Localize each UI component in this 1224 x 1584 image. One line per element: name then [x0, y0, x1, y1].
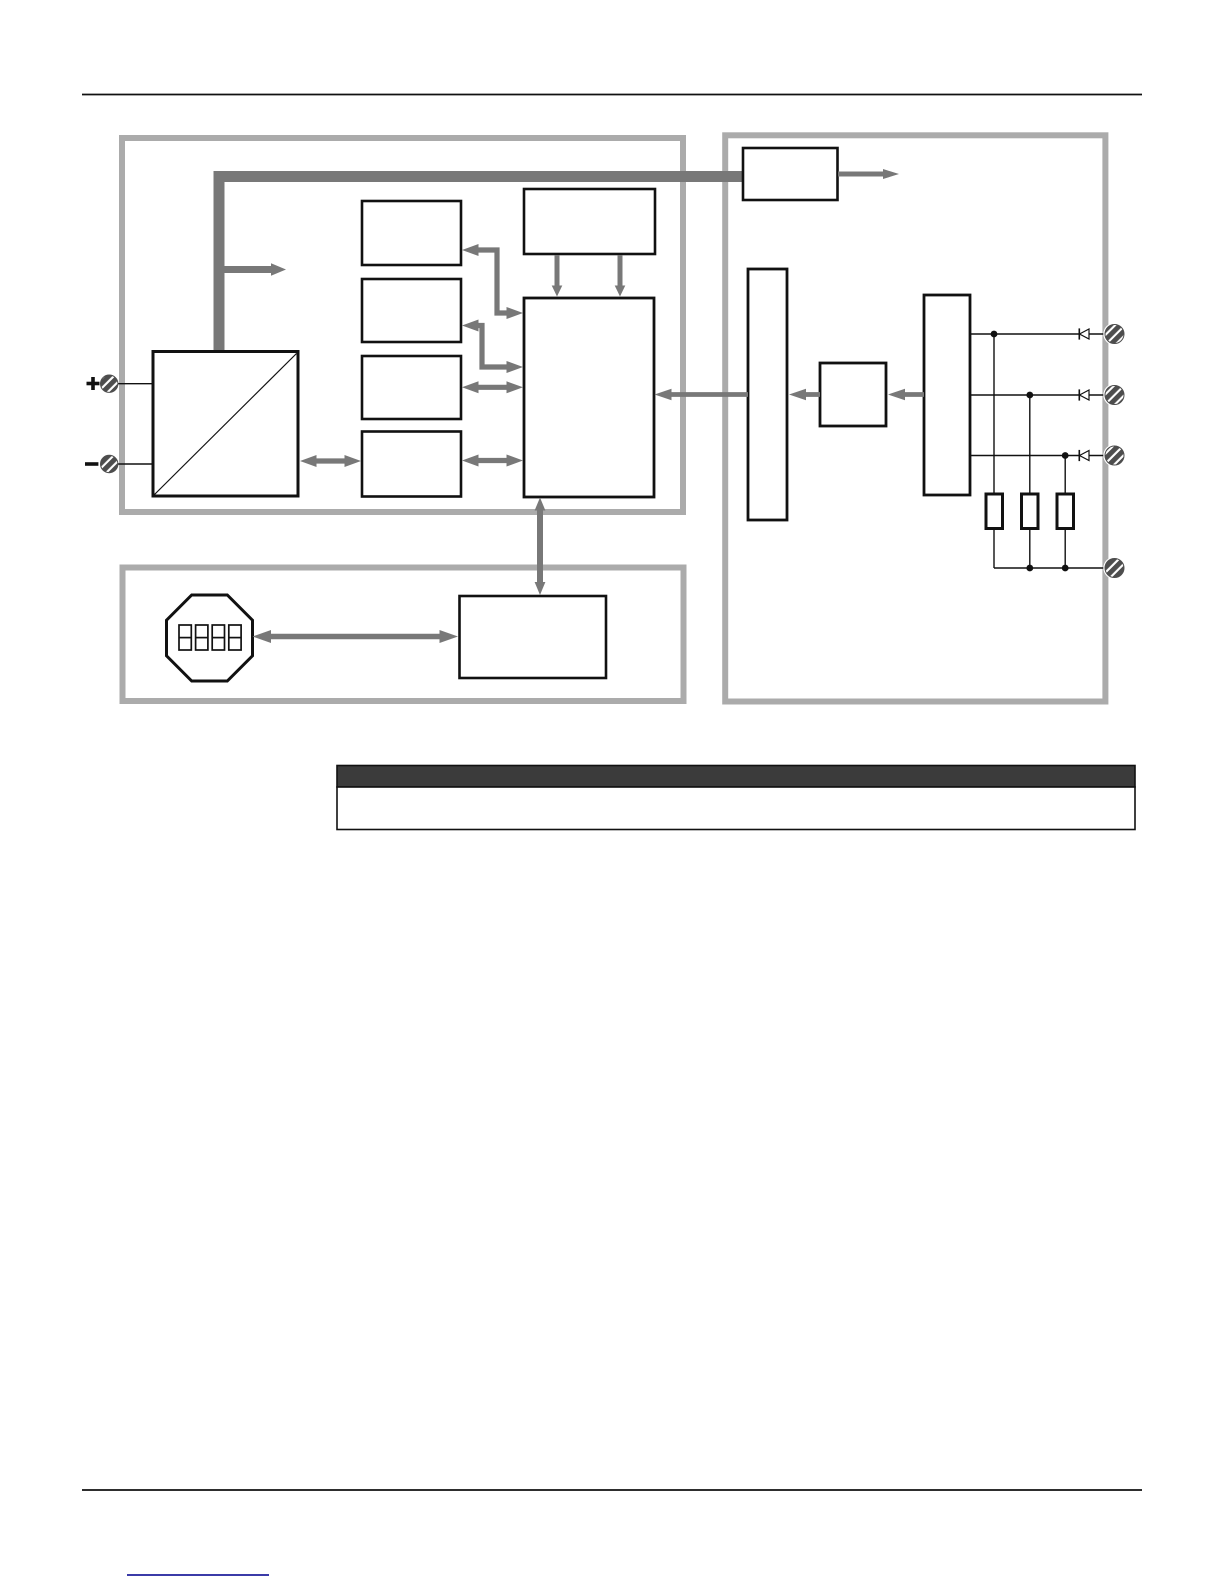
junction dot common 1: [1026, 565, 1033, 572]
terminal output 2: [1103, 384, 1125, 406]
LCD digit 4: [229, 625, 241, 650]
arrow: output driver to isolation barrier: [789, 389, 820, 401]
arrow: EEPROM to MCU bidirectional: [462, 455, 523, 467]
terminal output 1: [1103, 323, 1125, 345]
arrow: ADC to MCU bidirectional: [462, 381, 523, 393]
block: power supply: [743, 148, 838, 200]
wire: R3 to common: [1064, 529, 1066, 569]
junction dot common 2: [1062, 565, 1069, 572]
LCD display (octagon): [167, 595, 253, 681]
resistor R2: [1022, 494, 1039, 529]
arrow: oscillator clock output 1: [552, 255, 563, 297]
junction dot line2: [1026, 392, 1033, 399]
arrow: zigzag MCU to amplifier stage 2: [462, 320, 523, 374]
terminal output 3: [1103, 444, 1125, 466]
wire: thick supply wire from transducer to power box: [219, 177, 743, 353]
block: EEPROM: [362, 432, 461, 497]
arrow: MCU to LCD controller bidirectional vertical: [535, 498, 546, 596]
wire: pull-down 1 vertical: [993, 334, 995, 494]
wire: R1 to common: [993, 529, 995, 569]
input section enclosure: [122, 138, 683, 512]
terminal common: [1103, 557, 1125, 579]
top rule: [82, 94, 1142, 96]
output section enclosure: [725, 135, 1105, 701]
junction dot line3: [1062, 452, 1069, 459]
display section enclosure: [123, 568, 684, 702]
LCD digit 2: [196, 625, 208, 650]
footer link underline: [127, 1574, 269, 1576]
block: LCD controller: [460, 596, 607, 678]
arrow: output register to output driver: [888, 389, 924, 401]
transducer U1 (input converter): [153, 352, 298, 497]
wire: output line 2: [970, 394, 1105, 396]
wire: output line 1: [970, 333, 1105, 335]
block: isolation barrier: [748, 269, 787, 520]
wire: output line 3: [970, 455, 1105, 457]
arrow: isolation barrier to MCU: [655, 389, 749, 401]
arrow: zigzag MCU to amplifier stage 1: [462, 244, 523, 319]
wire: R2 to common: [1029, 529, 1031, 569]
diode D3: [1079, 450, 1089, 461]
transducer diagonal: [155, 354, 297, 495]
block: output driver: [820, 363, 886, 426]
diode D2: [1079, 389, 1089, 400]
arrow: power supply output: [838, 169, 899, 179]
bottom rule: [82, 1489, 1142, 1491]
terminal + (input plus): [87, 375, 154, 392]
block: microcontroller: [524, 298, 654, 497]
wire: common return line: [994, 567, 1105, 569]
LCD digit 1: [179, 625, 191, 650]
block: amplifier stage 2: [362, 279, 461, 342]
table body row: [337, 787, 1135, 830]
diode D1: [1079, 328, 1089, 339]
arrow: oscillator clock output 2: [615, 255, 626, 297]
wire: pull-down 3 vertical: [1064, 456, 1066, 495]
wire: pull-down 2 vertical: [1029, 395, 1031, 494]
arrow: LCD display to controller bidirectional: [253, 630, 459, 643]
resistor R3: [1057, 494, 1074, 529]
block: ADC: [362, 356, 461, 419]
table header bar: [337, 766, 1135, 788]
block: oscillator: [524, 189, 655, 254]
arrow: transducer to EEPROM bidirectional: [300, 455, 361, 467]
wire: branch arrow from supply wire: [222, 263, 286, 275]
block: output register: [924, 295, 970, 495]
resistor R1: [986, 494, 1003, 529]
block: amplifier stage 1: [362, 201, 461, 265]
junction dot line1: [991, 331, 998, 338]
LCD digit 3: [212, 625, 224, 650]
terminal - (input minus): [85, 455, 153, 472]
